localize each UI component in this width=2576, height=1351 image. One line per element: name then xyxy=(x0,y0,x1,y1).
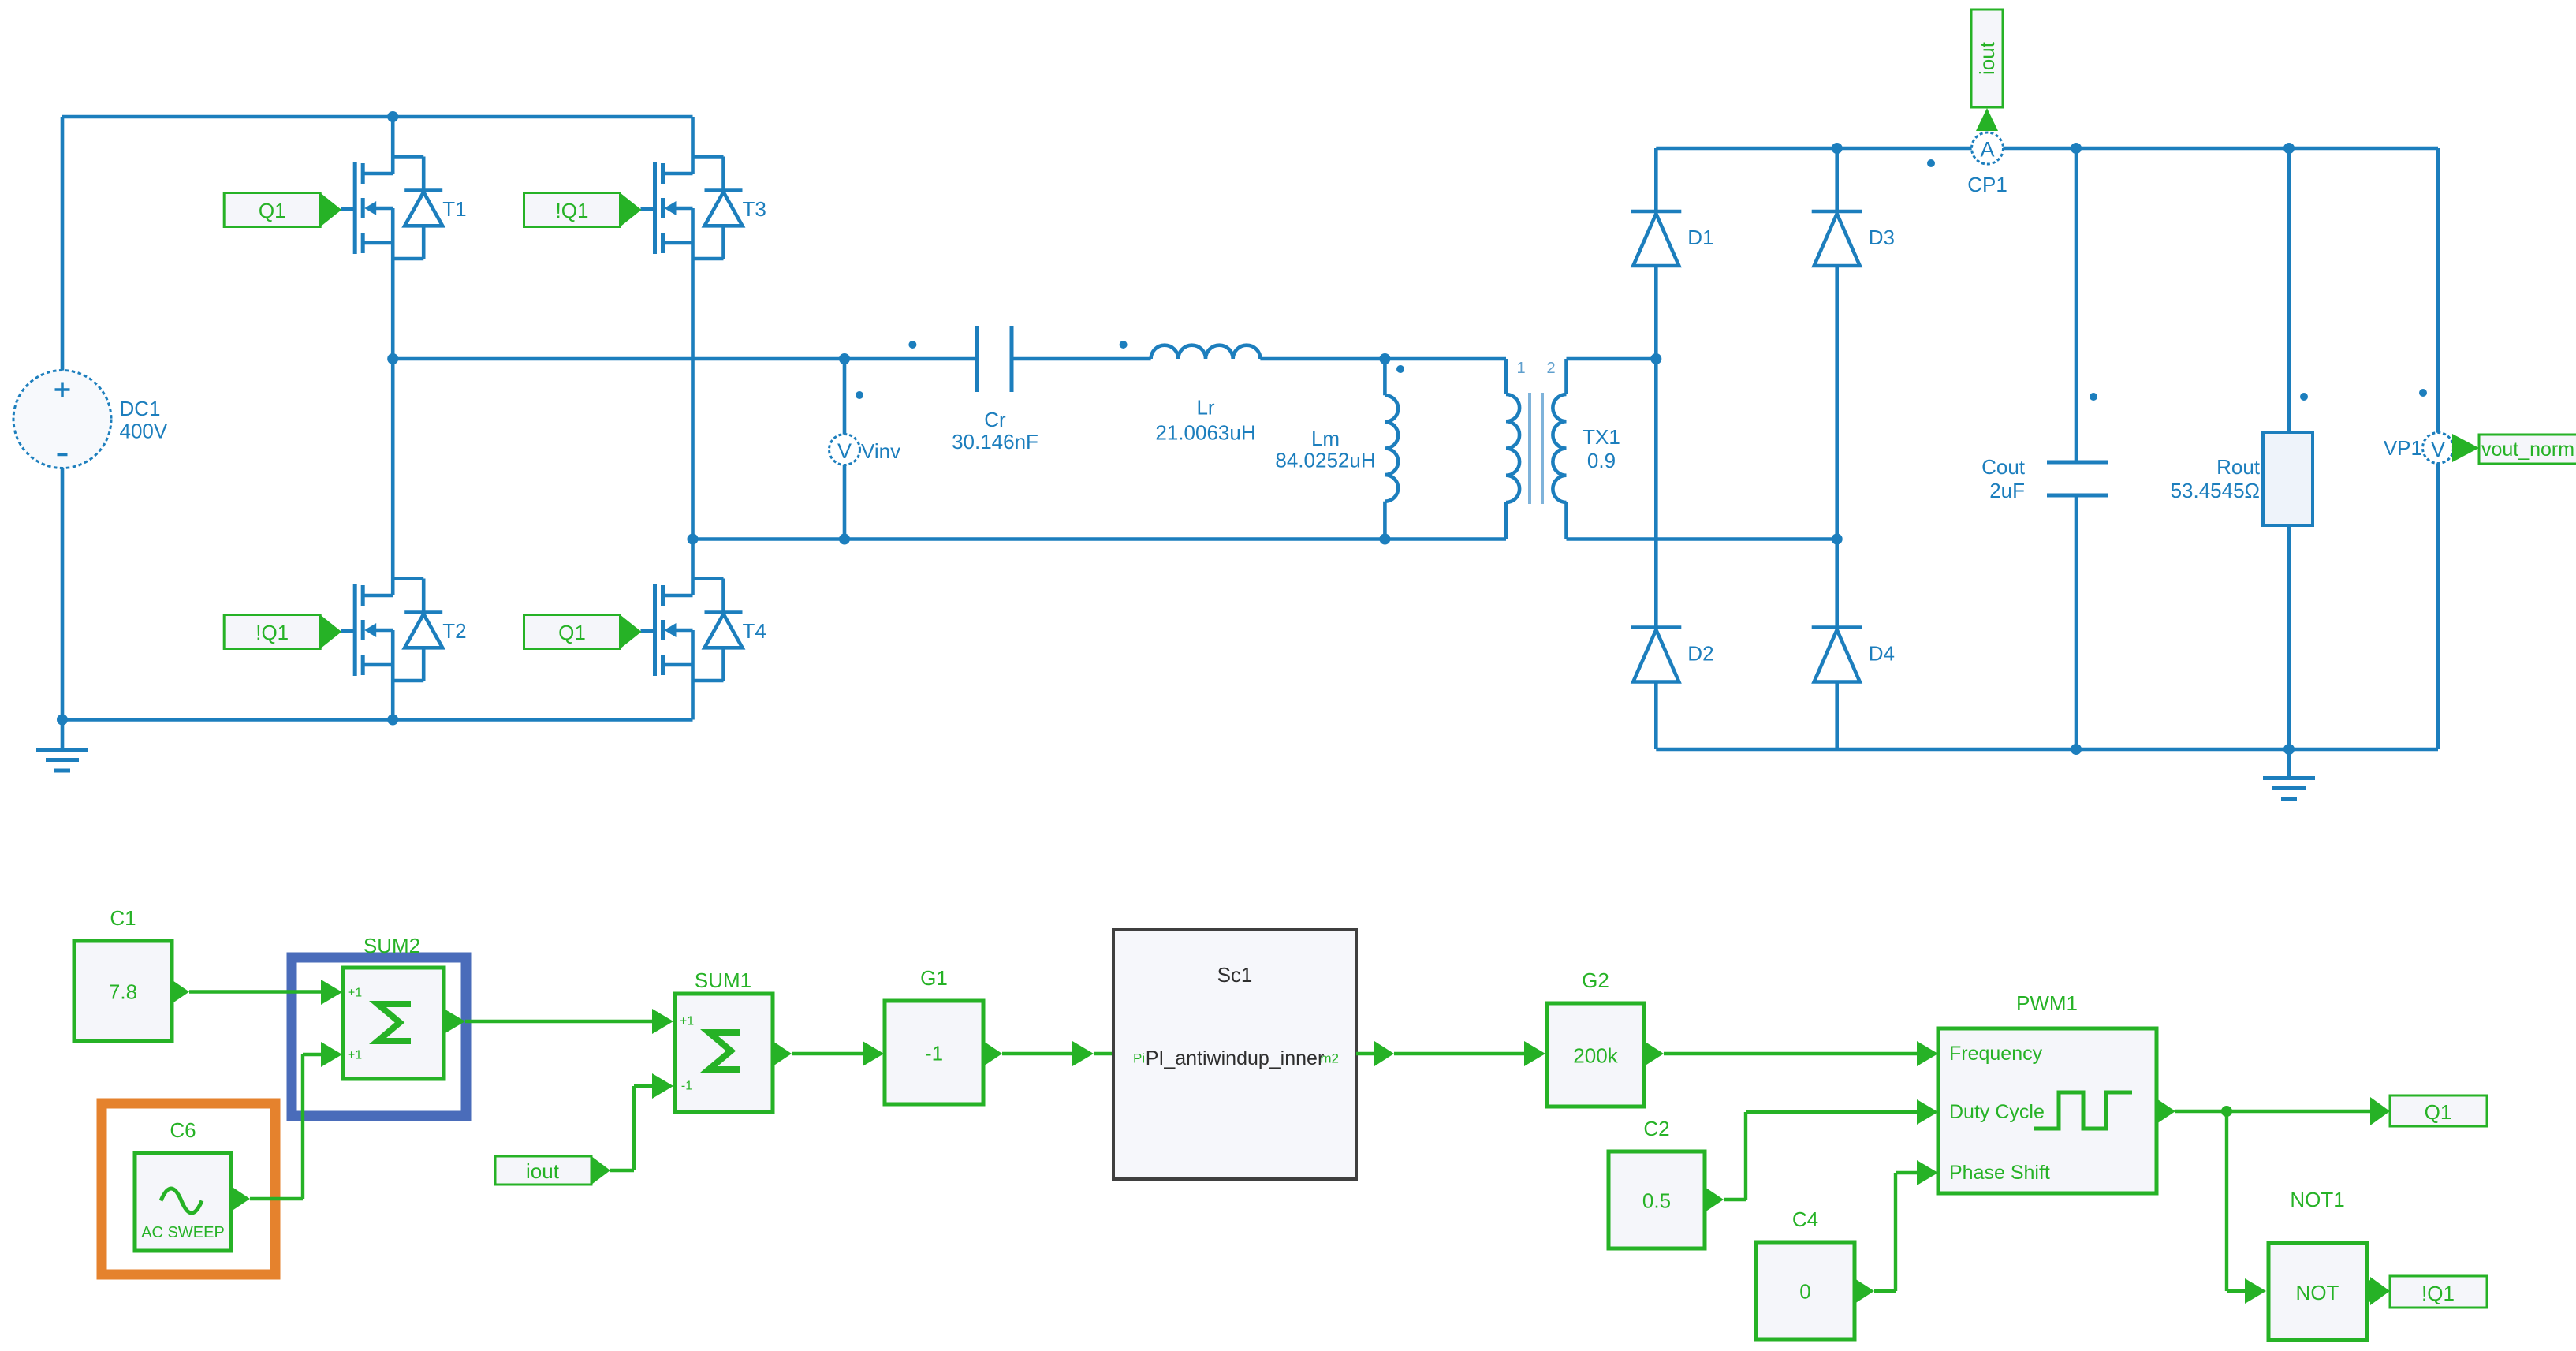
svg-text:2: 2 xyxy=(1546,360,1555,377)
svg-text:G1: G1 xyxy=(920,966,948,990)
svg-text:-1: -1 xyxy=(925,1042,943,1065)
svg-text:400V: 400V xyxy=(120,420,168,443)
svg-text:Cr: Cr xyxy=(984,408,1006,431)
svg-text:D2: D2 xyxy=(1687,642,1713,666)
svg-text:Q1: Q1 xyxy=(558,621,586,644)
svg-text:+1: +1 xyxy=(348,987,362,1000)
svg-text:AC SWEEP: AC SWEEP xyxy=(141,1224,225,1241)
svg-text:iout: iout xyxy=(1975,41,1999,75)
svg-text:G2: G2 xyxy=(1582,968,1609,992)
svg-text:7.8: 7.8 xyxy=(109,980,137,1004)
svg-text:PI_antiwindup_inner: PI_antiwindup_inner xyxy=(1146,1047,1325,1069)
svg-text:SUM1: SUM1 xyxy=(695,968,751,992)
svg-text:Cout: Cout xyxy=(1981,455,2026,479)
svg-text:Vinv: Vinv xyxy=(861,439,900,463)
svg-text:0.5: 0.5 xyxy=(1642,1189,1671,1213)
svg-text:A: A xyxy=(1980,138,1994,162)
svg-text:SUM2: SUM2 xyxy=(363,934,420,957)
svg-text:TX1: TX1 xyxy=(1583,425,1620,449)
svg-text:vout_norm: vout_norm xyxy=(2481,439,2574,461)
svg-text:!Q1: !Q1 xyxy=(2421,1282,2455,1305)
svg-text:21.0063uH: 21.0063uH xyxy=(1155,421,1255,445)
svg-text:30.146nF: 30.146nF xyxy=(952,430,1038,453)
svg-text:PWM1: PWM1 xyxy=(2016,991,2078,1015)
svg-text:T2: T2 xyxy=(442,619,466,643)
svg-text:0.9: 0.9 xyxy=(1587,449,1616,472)
svg-text:!Q1: !Q1 xyxy=(255,621,289,644)
svg-text:Lr: Lr xyxy=(1196,396,1214,420)
svg-text:1: 1 xyxy=(1516,360,1525,377)
svg-text:D4: D4 xyxy=(1869,642,1895,666)
svg-text:-1: -1 xyxy=(681,1080,692,1093)
svg-text:D1: D1 xyxy=(1687,226,1713,249)
svg-text:D3: D3 xyxy=(1869,226,1895,249)
svg-text:53.4545Ω: 53.4545Ω xyxy=(2171,479,2260,502)
svg-text:Sc1: Sc1 xyxy=(1217,963,1253,987)
svg-text:0: 0 xyxy=(1799,1280,1810,1304)
svg-text:Frequency: Frequency xyxy=(1949,1043,2043,1065)
svg-text:T3: T3 xyxy=(743,197,766,221)
svg-text:Phase Shift: Phase Shift xyxy=(1949,1162,2050,1184)
svg-text:Lm: Lm xyxy=(1311,427,1340,450)
svg-text:+1: +1 xyxy=(680,1015,694,1028)
svg-text:VP1: VP1 xyxy=(2384,436,2422,460)
svg-text:!Q1: !Q1 xyxy=(556,199,589,222)
svg-text:Q1: Q1 xyxy=(259,199,286,222)
svg-text:+1: +1 xyxy=(348,1049,362,1062)
svg-text:DC1: DC1 xyxy=(120,397,161,420)
svg-text:200k: 200k xyxy=(1573,1044,1618,1068)
svg-text:C6: C6 xyxy=(170,1118,196,1142)
svg-text:Pi: Pi xyxy=(1133,1051,1145,1066)
svg-text:V: V xyxy=(837,439,852,463)
svg-text:iout: iout xyxy=(526,1159,560,1183)
svg-text:V: V xyxy=(2431,438,2445,461)
svg-text:C4: C4 xyxy=(1792,1207,1818,1231)
svg-text:NOT: NOT xyxy=(2296,1281,2339,1304)
svg-text:T4: T4 xyxy=(743,619,766,643)
svg-text:84.0252uH: 84.0252uH xyxy=(1275,449,1375,472)
svg-text:Duty Cycle: Duty Cycle xyxy=(1949,1101,2045,1123)
svg-text:T1: T1 xyxy=(442,197,466,221)
svg-text:2uF: 2uF xyxy=(1989,479,2025,502)
svg-text:C2: C2 xyxy=(1643,1117,1669,1140)
svg-text:Rout: Rout xyxy=(2216,455,2261,479)
svg-text:CP1: CP1 xyxy=(1967,173,2007,196)
svg-text:C1: C1 xyxy=(110,906,136,930)
svg-text:Q1: Q1 xyxy=(2425,1100,2452,1124)
svg-text:NOT1: NOT1 xyxy=(2290,1188,2344,1211)
